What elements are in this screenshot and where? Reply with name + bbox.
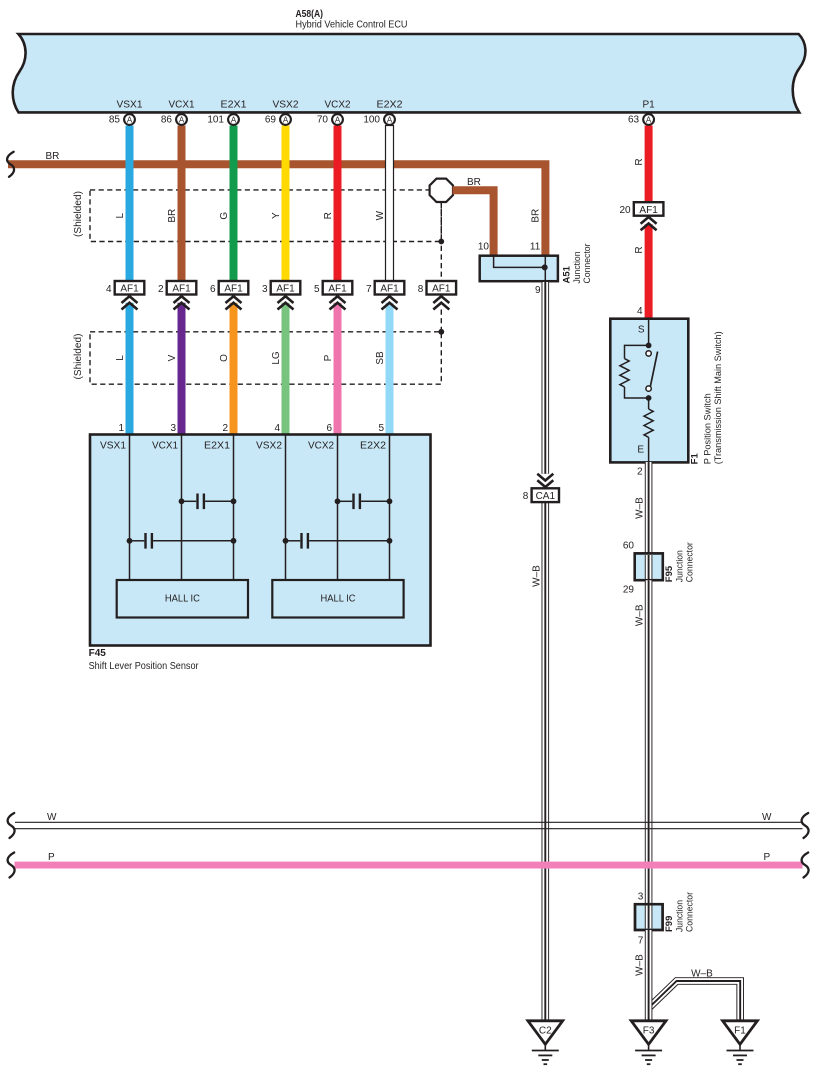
internal wire VCX2 inside F45 [337, 435, 339, 580]
F45 cell label VSX2 [256, 441, 282, 452]
label G rotated [219, 212, 230, 220]
pin 101 circle A at E2X1 [207, 114, 239, 125]
svg-text:F99: F99 [664, 916, 675, 932]
connector AF1 pin 6 [210, 281, 248, 295]
junction dot on shield box 2 corner [438, 329, 444, 335]
svg-text:G: G [219, 212, 230, 220]
svg-text:A: A [646, 115, 652, 124]
label W-B left wire [531, 565, 542, 587]
shield ground octagon terminal [430, 179, 453, 202]
F95 pin labels 60 29 [623, 541, 635, 596]
svg-text:E2X2: E2X2 [360, 441, 386, 452]
pin 1 label at F45 [118, 423, 124, 434]
F1 switch contact upper [646, 351, 651, 356]
capacitor C-lower-right [283, 533, 393, 549]
svg-text:Connector: Connector [684, 542, 695, 582]
svg-text:BR: BR [531, 209, 542, 223]
wire R from ECU P1 to AF1 pin 20 [645, 126, 653, 203]
svg-text:F45: F45 [89, 648, 107, 659]
F45 cell label VSX1 [100, 441, 126, 452]
svg-text:Y: Y [271, 212, 282, 219]
F1 internal junction dot top [646, 343, 652, 349]
connector A51 Junction Connector box [480, 256, 558, 282]
wire W-B branch to ground F1 [649, 981, 741, 1021]
svg-text:A58(A): A58(A) [296, 9, 324, 20]
svg-text:Connector: Connector [582, 244, 593, 284]
connector AF1 pin 7 [366, 281, 404, 295]
break squiggle left of W wire [8, 813, 15, 838]
wire O from AF1 to F45 pin 2 [230, 303, 238, 435]
ECU port label E2X1 [221, 100, 247, 111]
connector AF1 pin 5 [314, 281, 352, 295]
svg-text:2: 2 [222, 423, 228, 434]
svg-text:VCX2: VCX2 [308, 441, 334, 452]
F1 pin 2 label [637, 467, 643, 478]
svg-text:AF1: AF1 [328, 284, 347, 295]
svg-text:F3: F3 [643, 1026, 655, 1037]
chevron marker below AF1 pin 6 [226, 296, 242, 309]
break squiggle right of P wire [802, 853, 809, 878]
svg-text:SB: SB [375, 351, 386, 365]
wire Y from ECU VSX2 to AF1 [282, 126, 290, 283]
F45 cell label VCX1 [152, 441, 178, 452]
wire P from AF1 to F45 pin 6 [334, 303, 342, 435]
pin 3 label at F45 [170, 423, 176, 434]
svg-text:P: P [323, 354, 334, 361]
label LG rotated [271, 351, 282, 365]
svg-text:P1: P1 [642, 100, 655, 111]
F1 switch contact lower [646, 386, 651, 391]
svg-text:3: 3 [262, 284, 268, 295]
wire P horizontal across page [15, 862, 803, 869]
pin 70 circle A at VCX2 [317, 114, 343, 125]
pin 63 circle A at P1 [628, 114, 654, 125]
svg-text:V: V [167, 354, 178, 361]
svg-text:W–B: W–B [635, 497, 646, 519]
svg-text:W: W [47, 812, 57, 823]
F1 switch arm [650, 352, 657, 387]
wire G from ECU E2X1 to AF1 [230, 126, 238, 283]
pin 2 label at F45 [222, 423, 228, 434]
ECU port label VSX2 [273, 100, 299, 111]
label W rotated [375, 210, 386, 220]
ECU port label VCX2 [325, 100, 351, 111]
svg-text:Connector: Connector [685, 892, 696, 932]
svg-text:4: 4 [106, 284, 112, 295]
wire L from AF1 to F45 pin 1 [126, 303, 134, 435]
svg-text:L: L [115, 212, 126, 218]
F1 resistor lower [644, 398, 653, 462]
svg-text:2: 2 [637, 467, 643, 478]
svg-text:6: 6 [210, 284, 216, 295]
HALL IC right box [272, 580, 403, 618]
HALL IC left box [117, 580, 248, 618]
svg-text:VCX2: VCX2 [325, 100, 351, 111]
svg-text:Shift Lever Position Sensor: Shift Lever Position Sensor [89, 661, 200, 672]
F45 cell label E2X2 [360, 441, 386, 452]
F1 terminal E label [637, 445, 644, 456]
svg-text:4: 4 [637, 306, 643, 317]
svg-text:AF1: AF1 [432, 284, 451, 295]
wire BR horizontal from left break to A51 pin 11 [8, 164, 545, 256]
F1 resistor branch left [620, 345, 649, 398]
label L rotated [115, 212, 126, 218]
svg-text:A: A [231, 115, 237, 124]
label BR rotated [167, 209, 178, 223]
connector F99 Junction Connector [635, 904, 663, 930]
label F45 Shift Lever Position Sensor [89, 648, 200, 672]
label L rotated [115, 355, 126, 361]
svg-text:AF1: AF1 [276, 284, 295, 295]
capacitor C-upper-left [179, 494, 237, 510]
svg-text:VCX1: VCX1 [169, 100, 195, 111]
label F1 P Position Switch (Transmission Shift Main Switch) [690, 331, 724, 464]
svg-text:O: O [219, 354, 230, 362]
svg-text:101: 101 [207, 114, 224, 125]
svg-text:E2X1: E2X1 [221, 100, 247, 111]
label W-B below F95 [635, 604, 646, 626]
svg-text:C2: C2 [539, 1026, 552, 1037]
svg-text:63: 63 [628, 114, 640, 125]
svg-text:E2X1: E2X1 [204, 441, 230, 452]
chevron marker below AF1 pin 5 [330, 296, 346, 309]
F45 cell label E2X1 [204, 441, 230, 452]
svg-text:VSX1: VSX1 [100, 441, 126, 452]
wire LG from AF1 to F45 pin 4 [282, 303, 290, 435]
wire W from ECU E2X2 to AF1 [386, 126, 394, 283]
F1 P Position Switch box [610, 319, 688, 463]
break squiggle left of BR wire [7, 152, 14, 177]
svg-text:Hybrid Vehicle Control ECU: Hybrid Vehicle Control ECU [296, 20, 408, 31]
F1 terminal S label [638, 325, 645, 336]
label BR rotated on A51 pin 11 wire [531, 209, 542, 223]
label A51 Junction Connector [562, 244, 594, 284]
svg-text:LG: LG [271, 351, 282, 365]
label V rotated [167, 354, 178, 361]
wire V from AF1 to F45 pin 3 [178, 303, 186, 435]
svg-text:AF1: AF1 [380, 284, 399, 295]
label (Shielded) upper [73, 191, 84, 237]
chevron marker below AF1 pin 20 [641, 217, 657, 230]
svg-text:AF1: AF1 [224, 284, 243, 295]
label A58(A) title [296, 9, 408, 31]
svg-text:W–B: W–B [691, 969, 713, 980]
chevron marker below AF1 pin 2 [174, 296, 190, 309]
svg-text:(Transmission Shift Main Switc: (Transmission Shift Main Switch) [713, 331, 724, 464]
connector AF1 pin 4 [106, 281, 144, 295]
svg-text:60: 60 [623, 541, 635, 552]
labels W left and right [47, 812, 772, 823]
svg-text:AF1: AF1 [639, 205, 658, 216]
ground F3 [631, 1021, 666, 1064]
pin 85 circle A at VSX1 [109, 114, 135, 125]
svg-text:BR: BR [167, 209, 178, 223]
ECU port label P1 [642, 100, 655, 111]
wire W-B from F1 switch to F95 [645, 462, 653, 554]
svg-text:F1: F1 [734, 1026, 746, 1037]
label Y rotated [271, 212, 282, 219]
ECU port label VSX1 [117, 100, 143, 111]
svg-text:8: 8 [418, 284, 424, 295]
svg-text:69: 69 [265, 114, 277, 125]
svg-text:HALL IC: HALL IC [165, 594, 200, 605]
svg-text:85: 85 [109, 114, 121, 125]
svg-text:W: W [762, 812, 772, 823]
chevron marker above CA1 [537, 474, 553, 487]
wire W horizontal across page [15, 822, 803, 828]
pin 4 label at F45 [274, 423, 280, 434]
svg-text:VSX1: VSX1 [117, 100, 143, 111]
svg-text:20: 20 [619, 205, 631, 216]
svg-text:HALL IC: HALL IC [321, 594, 356, 605]
ground F1 [723, 1021, 758, 1064]
internal wire VCX1 inside F45 [181, 435, 183, 580]
internal wire VSX2 inside F45 [285, 435, 287, 580]
break squiggle right of W wire [802, 813, 809, 838]
svg-text:AF1: AF1 [172, 284, 191, 295]
svg-text:R: R [323, 212, 334, 219]
svg-text:A51: A51 [562, 265, 573, 283]
svg-text:86: 86 [161, 114, 173, 125]
svg-text:F95: F95 [664, 565, 675, 582]
label W-B on branch [691, 969, 713, 980]
wire R from AF1 pin 20 to F1 switch [645, 224, 653, 319]
chevron marker below AF1 pin 4 [122, 296, 138, 309]
svg-text:AF1: AF1 [120, 284, 139, 295]
svg-text:P: P [48, 852, 55, 863]
F45 cell label VCX2 [308, 441, 334, 452]
svg-text:(Shielded): (Shielded) [73, 334, 84, 380]
wire SB from AF1 to F45 pin 5 [386, 303, 394, 435]
svg-text:10: 10 [478, 241, 490, 252]
svg-text:70: 70 [317, 114, 329, 125]
internal wire E2X1 inside F45 [233, 435, 235, 580]
svg-text:P Position Switch: P Position Switch [703, 393, 714, 464]
svg-text:8: 8 [523, 491, 529, 502]
wire W-B from F99 to ground F3 [645, 930, 653, 1021]
label BR on horizontal wire [46, 151, 60, 162]
svg-text:BR: BR [467, 177, 481, 188]
svg-text:A: A [179, 115, 185, 124]
internal wire VSX1 inside F45 [129, 435, 131, 580]
pin 69 circle A at VSX2 [265, 114, 291, 125]
label R lower rotated [634, 246, 645, 253]
svg-text:5: 5 [314, 284, 320, 295]
pin 100 circle A at E2X2 [363, 114, 395, 125]
wire W-B from A51 pin 9 to CA1 [541, 282, 549, 474]
wire L from ECU VSX1 to AF1 [126, 126, 134, 283]
label F95 Junction Connector [664, 542, 696, 582]
shield drain dashed line vertical [440, 203, 442, 332]
label R rotated [323, 212, 334, 219]
junction dot on shield box 1 corner [438, 239, 444, 245]
svg-text:R: R [634, 158, 645, 165]
labels P left and right [48, 852, 771, 863]
chevron marker below AF1 pin 7 [382, 296, 398, 309]
svg-text:BR: BR [46, 151, 60, 162]
svg-text:9: 9 [535, 285, 541, 296]
svg-text:(Shielded): (Shielded) [73, 191, 84, 237]
connector AF1 pin 20 on R wire [619, 202, 663, 216]
F1 internal junction dot bottom [646, 395, 652, 401]
svg-text:2: 2 [158, 284, 164, 295]
ECU A58 Hybrid Vehicle Control ECU box [13, 34, 806, 112]
svg-text:A: A [283, 115, 289, 124]
capacitor C-upper-right [335, 494, 393, 510]
svg-text:P: P [764, 852, 771, 863]
label R upper rotated [634, 158, 645, 165]
ground C2 [528, 1021, 563, 1064]
svg-text:VSX2: VSX2 [273, 100, 299, 111]
connector AF1 pin 8 (shield) [418, 281, 456, 295]
A51 pin labels 10 11 9 [478, 241, 541, 296]
F1 internal entry wire [648, 319, 650, 346]
svg-text:7: 7 [638, 935, 644, 946]
capacitor C-lower-left [127, 533, 237, 549]
svg-text:100: 100 [363, 114, 380, 125]
wire W-B through F95 [635, 553, 663, 580]
svg-text:1: 1 [118, 423, 124, 434]
label P rotated [323, 354, 334, 361]
svg-text:VSX2: VSX2 [256, 441, 282, 452]
wire W-B from CA1 to ground C2 [541, 502, 549, 1020]
svg-text:CA1: CA1 [536, 491, 556, 502]
connector CA1 pin 8 [523, 488, 559, 502]
ECU port label E2X2 [377, 100, 403, 111]
break squiggle left of P wire [8, 853, 15, 878]
pin 5 label at F45 [378, 423, 384, 434]
svg-text:W–B: W–B [635, 954, 646, 976]
svg-text:6: 6 [326, 423, 332, 434]
svg-text:W–B: W–B [531, 565, 542, 587]
label O rotated [219, 354, 230, 362]
svg-text:4: 4 [274, 423, 280, 434]
svg-text:E2X2: E2X2 [377, 100, 403, 111]
connector AF1 pin 3 [262, 281, 300, 295]
shield box 1 (upper, dashed) [90, 190, 441, 242]
label W-B above F95 [635, 497, 646, 519]
svg-text:29: 29 [623, 585, 635, 596]
label (Shielded) lower [73, 334, 84, 380]
svg-text:S: S [638, 325, 645, 336]
A51 internal wire pin 10 to pin 11 [494, 257, 546, 283]
label SB rotated [375, 351, 386, 365]
svg-text:3: 3 [638, 892, 644, 903]
A51 internal junction dot [542, 264, 548, 270]
F99 pin labels 3 7 [638, 892, 644, 947]
chevron marker below AF1 pin 3 [278, 296, 294, 309]
wire W-B from F95 to F99 [645, 580, 653, 904]
svg-text:3: 3 [170, 423, 176, 434]
wire BR from ECU VCX1 to AF1 [178, 126, 186, 283]
svg-text:R: R [634, 246, 645, 253]
internal wire E2X2 inside F45 [389, 435, 391, 580]
svg-text:W–B: W–B [635, 604, 646, 626]
svg-text:A: A [335, 115, 341, 124]
svg-text:VCX1: VCX1 [152, 441, 178, 452]
pin 86 circle A at VCX1 [161, 114, 187, 125]
svg-text:F1: F1 [690, 452, 701, 464]
svg-text:A: A [387, 115, 393, 124]
svg-text:7: 7 [366, 284, 372, 295]
svg-text:11: 11 [530, 241, 541, 252]
shield box 2 (lower, dashed) [90, 332, 441, 384]
F45 Shift Lever Position Sensor box [90, 435, 431, 646]
wire W-B through F99 [635, 904, 663, 930]
svg-text:A: A [127, 115, 133, 124]
label BR near octagon [467, 177, 481, 188]
svg-text:E: E [637, 445, 644, 456]
wire R from ECU VCX2 to AF1 [334, 126, 342, 283]
chevron marker below AF1 pin 8 [433, 296, 449, 309]
connector AF1 pin 2 [158, 281, 196, 295]
label W-B below F99 [635, 954, 646, 976]
label F99 Junction Connector [664, 892, 696, 932]
svg-text:L: L [115, 355, 126, 361]
svg-text:5: 5 [378, 423, 384, 434]
F1 pin 4 label [637, 306, 643, 317]
ECU port label VCX1 [169, 100, 195, 111]
svg-text:W: W [375, 210, 386, 220]
wire BR from octagon to A51 pin 10 [453, 190, 494, 256]
pin 6 label at F45 [326, 423, 332, 434]
connector F95 Junction Connector [635, 553, 663, 580]
